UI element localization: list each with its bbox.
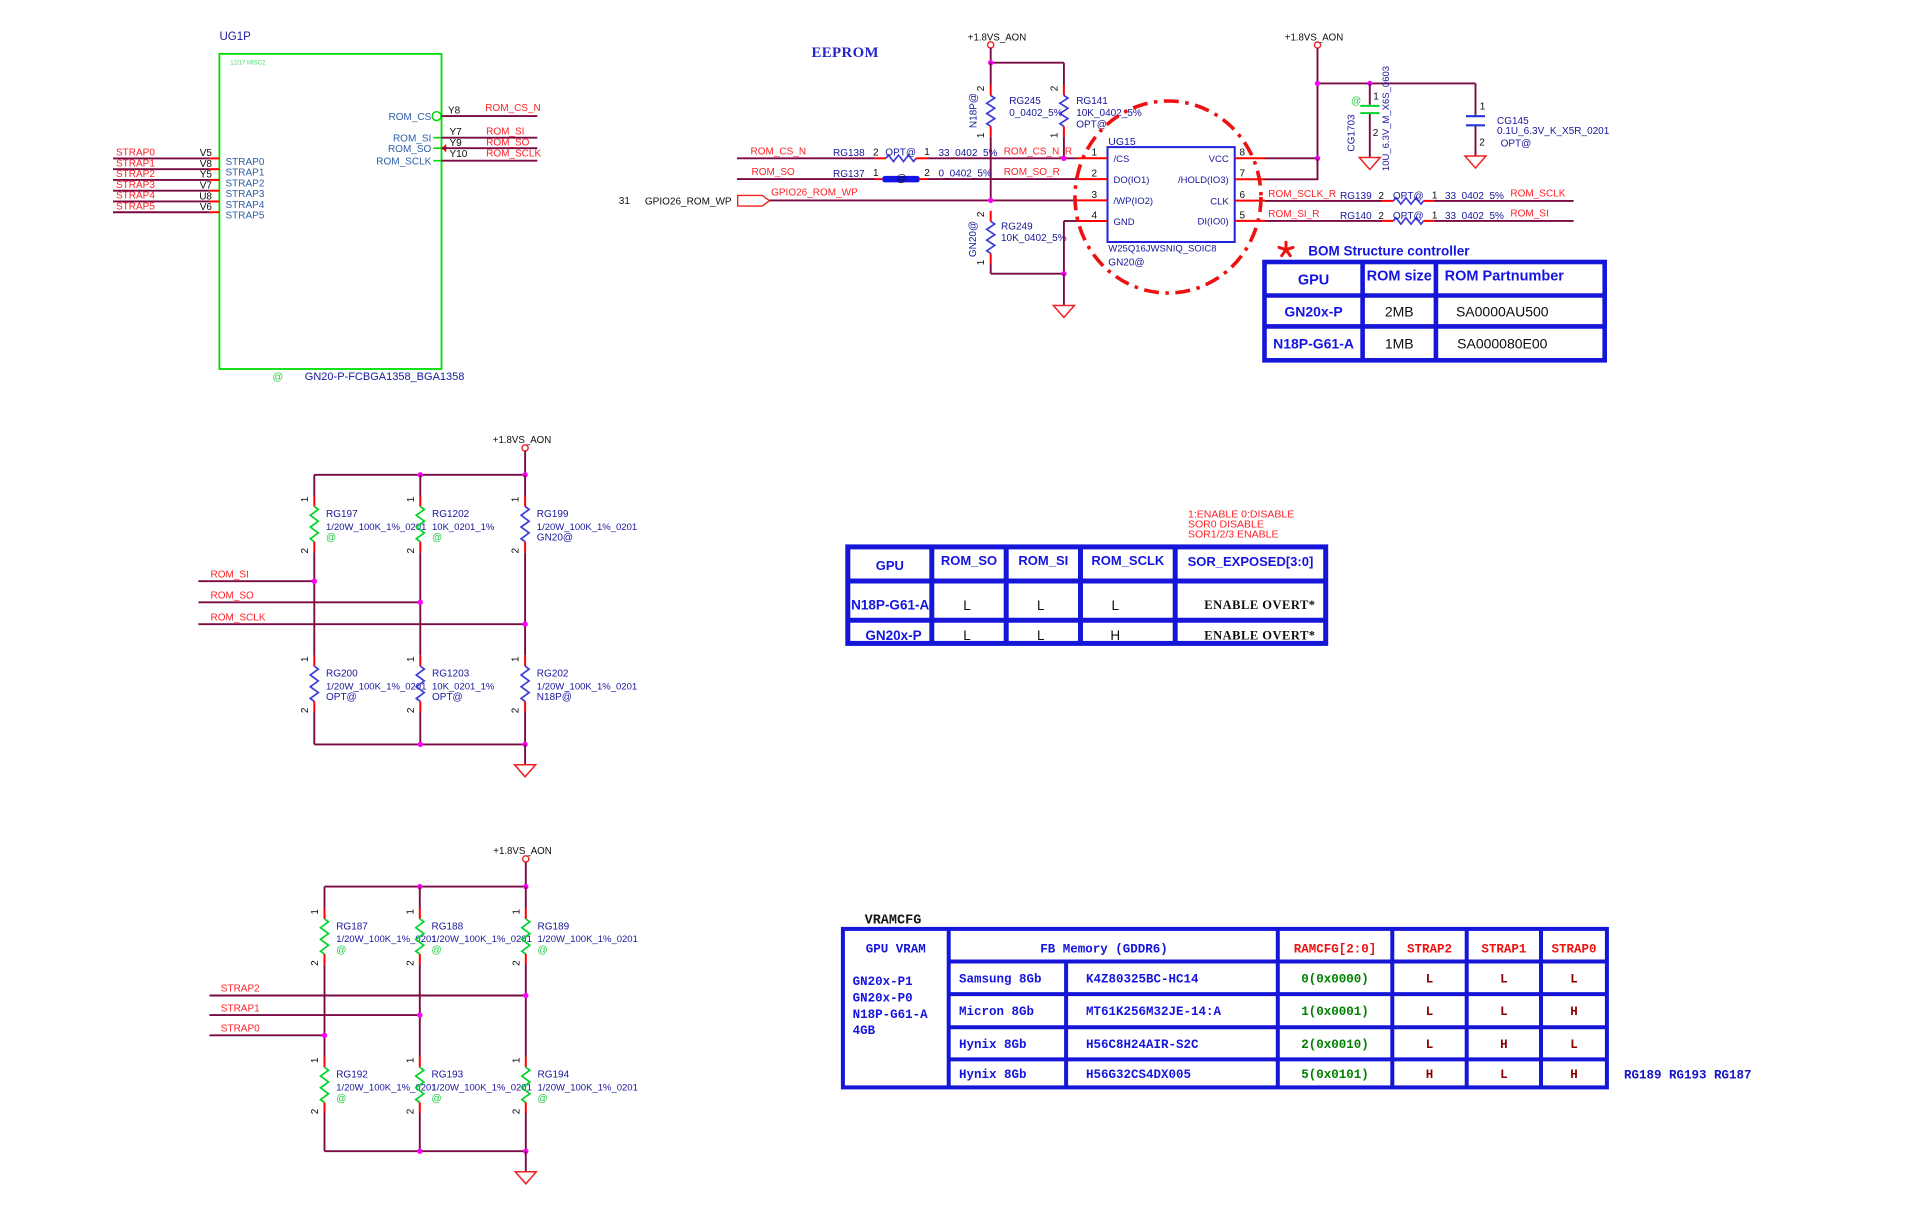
svg-text:ROM_SI: ROM_SI xyxy=(393,133,431,144)
svg-text:DI(IO0): DI(IO0) xyxy=(1198,217,1229,228)
svg-text:10K_0201_1%: 10K_0201_1% xyxy=(432,681,495,692)
wire net ROM_SO_R xyxy=(927,178,1077,180)
table VRAMCFG xyxy=(843,929,1607,1088)
node junction bottom/RG202 xyxy=(522,742,527,747)
svg-text:4GB: 4GB xyxy=(853,1024,876,1038)
svg-text:RG138: RG138 xyxy=(833,148,865,159)
svg-text:GN20@: GN20@ xyxy=(537,533,573,544)
svg-text:1/20W_100K_1%_0201: 1/20W_100K_1%_0201 xyxy=(538,934,638,945)
svg-text:@: @ xyxy=(896,173,907,185)
svg-text:1: 1 xyxy=(310,909,321,915)
svg-text:RG1202: RG1202 xyxy=(432,509,470,520)
resistor RG200 1/20W_100K_1%_0201 xyxy=(313,581,315,656)
svg-text:L: L xyxy=(963,628,971,643)
svg-text:1: 1 xyxy=(406,656,417,662)
wire net ROM_SO (EEPROM side) xyxy=(737,178,875,180)
svg-text:MT61K256M32JE-14:A: MT61K256M32JE-14:A xyxy=(1086,1005,1222,1019)
svg-text:ROM_SCLK: ROM_SCLK xyxy=(486,148,541,159)
svg-text:Y7: Y7 xyxy=(450,127,463,138)
svg-text:2: 2 xyxy=(924,168,930,179)
svg-text:2: 2 xyxy=(511,960,522,966)
table SOR_EXPOSED xyxy=(848,547,1326,644)
svg-text:W25Q16JWSNIQ_SOIC8: W25Q16JWSNIQ_SOIC8 xyxy=(1108,243,1216,254)
svg-text:1: 1 xyxy=(976,132,987,138)
svg-text:@: @ xyxy=(432,945,442,956)
node junction bottom/RG1203 xyxy=(418,742,423,747)
capacitor CG1703 10U_6.3V_M_X6S_0603 xyxy=(1369,83,1371,104)
svg-text:STRAP5: STRAP5 xyxy=(226,211,265,222)
capacitor CG145 0.1U_6.3V_K_X5R_0201 OPT xyxy=(1475,83,1477,115)
svg-text:10K_0201_1%: 10K_0201_1% xyxy=(432,522,495,533)
wire net ROM_SI out xyxy=(1434,220,1574,222)
wire net ROM_SCLK out xyxy=(1434,200,1574,202)
svg-text:2: 2 xyxy=(310,960,321,966)
svg-text:Y10: Y10 xyxy=(450,149,468,160)
svg-text:1: 1 xyxy=(1480,102,1486,113)
node junction STRAP2/RG189 xyxy=(523,993,528,998)
svg-text:L: L xyxy=(1500,1005,1508,1019)
svg-text:GND: GND xyxy=(1114,217,1135,228)
svg-text:N18P-G61-A: N18P-G61-A xyxy=(851,598,929,613)
IC UG15 W25Q16JWSNIQ body xyxy=(1108,147,1235,242)
svg-text:SOR1/2/3 ENABLE: SOR1/2/3 ENABLE xyxy=(1188,529,1278,541)
wire ground stub (bottom network) xyxy=(525,1151,527,1172)
node junction rail/RG199 xyxy=(522,472,527,477)
svg-text:1/20W_100K_1%_0201: 1/20W_100K_1%_0201 xyxy=(326,681,426,692)
node junction bottom/RG193 xyxy=(417,1149,422,1154)
svg-text:SOR_EXPOSED[3:0]: SOR_EXPOSED[3:0] xyxy=(1188,554,1314,569)
wire net STRAP3 into UG1P xyxy=(113,190,210,192)
svg-text:N18P@: N18P@ xyxy=(537,692,572,703)
wire net ROM_SCLK from UG1P xyxy=(442,160,538,162)
svg-text:2: 2 xyxy=(406,707,417,713)
wire ground stub xyxy=(1063,274,1065,306)
BOM note asterisk xyxy=(1279,242,1293,255)
node junction rail/RG188 xyxy=(417,884,422,889)
resistor RG139 33_0402_5% OPT xyxy=(1382,200,1393,202)
svg-text:+1.8VS_AON: +1.8VS_AON xyxy=(1285,33,1343,44)
svg-text:OPT@: OPT@ xyxy=(1393,211,1424,222)
svg-text:GN20-P-FCBGA1358_BGA1358: GN20-P-FCBGA1358_BGA1358 xyxy=(305,371,465,383)
svg-text:8: 8 xyxy=(1240,148,1246,159)
svg-text:@: @ xyxy=(336,945,346,956)
svg-text:L: L xyxy=(1037,628,1045,643)
svg-text:1: 1 xyxy=(511,909,522,915)
svg-text:L: L xyxy=(1570,972,1578,986)
svg-text:2: 2 xyxy=(300,707,311,713)
svg-text:1: 1 xyxy=(976,259,987,265)
svg-text:EEPROM: EEPROM xyxy=(812,45,879,61)
pin Y5 stub STRAP2 xyxy=(210,179,220,181)
svg-text:V7: V7 xyxy=(200,181,213,192)
wire net STRAP0 (pull junction) xyxy=(209,1034,324,1036)
svg-text:RG199: RG199 xyxy=(537,509,569,520)
svg-text:@: @ xyxy=(538,945,548,956)
svg-text:6: 6 xyxy=(1240,190,1246,201)
node junction ROM_SI/RG197 xyxy=(312,579,317,584)
svg-text:STRAP3: STRAP3 xyxy=(226,189,265,200)
svg-text:ROM Partnumber: ROM Partnumber xyxy=(1445,269,1565,285)
wire net ROM_SO from UG1P xyxy=(442,147,538,149)
svg-text:STRAP1: STRAP1 xyxy=(221,1003,260,1014)
pin Y7 ROM_SI xyxy=(433,137,441,139)
svg-text:4: 4 xyxy=(1091,210,1097,221)
svg-text:ROM_SI: ROM_SI xyxy=(486,126,524,137)
svg-text:N18P@: N18P@ xyxy=(969,93,980,128)
svg-text:RG140: RG140 xyxy=(1340,211,1372,222)
svg-text:N18P-G61-A: N18P-G61-A xyxy=(1273,336,1354,352)
wire power stub xyxy=(990,48,992,63)
svg-text:1: 1 xyxy=(1091,148,1097,159)
svg-text:2: 2 xyxy=(511,707,522,713)
svg-text:2: 2 xyxy=(405,1108,416,1114)
svg-text:1/20W_100K_1%_0201: 1/20W_100K_1%_0201 xyxy=(537,681,637,692)
node junction VCC pin8 xyxy=(1315,156,1320,161)
svg-text:1: 1 xyxy=(300,496,311,502)
svg-text:RG187: RG187 xyxy=(336,921,368,932)
svg-text:@: @ xyxy=(432,533,442,544)
node junction bottom/RG194 xyxy=(523,1149,528,1154)
node junction GPIO26/RG245/RG249 xyxy=(988,198,993,203)
svg-text:OPT@: OPT@ xyxy=(432,692,463,703)
highlight circle (BOM note) around UG15 xyxy=(1075,101,1261,293)
svg-text:@: @ xyxy=(326,533,336,544)
wire net GPIO26_ROM_WP to /WP pin xyxy=(770,199,1078,201)
ground symbol (EEPROM) xyxy=(1053,306,1074,318)
svg-text:1: 1 xyxy=(405,909,416,915)
svg-text:RG141: RG141 xyxy=(1076,96,1108,107)
svg-text:10U_6.3V_M_X6S_0603: 10U_6.3V_M_X6S_0603 xyxy=(1381,66,1392,171)
svg-text:L: L xyxy=(1426,972,1434,986)
svg-text:+1.8VS_AON: +1.8VS_AON xyxy=(493,846,551,857)
svg-text:H: H xyxy=(1570,1068,1578,1082)
wire net STRAP4 into UG1P xyxy=(113,200,210,202)
svg-text:UG1P: UG1P xyxy=(220,31,252,43)
svg-text:1: 1 xyxy=(405,1057,416,1063)
svg-text:ROM_SO: ROM_SO xyxy=(388,144,432,155)
svg-text:STRAP1: STRAP1 xyxy=(116,158,155,169)
svg-text:OPT@: OPT@ xyxy=(1501,138,1532,149)
svg-text:2: 2 xyxy=(511,1108,522,1114)
pin Y8 ROM_CS with bubble xyxy=(432,112,441,121)
wire net ROM_SI (pull junction) xyxy=(198,580,314,582)
svg-text:RG202: RG202 xyxy=(537,669,569,680)
svg-text:ROM_SCLK: ROM_SCLK xyxy=(211,612,266,623)
pin 7 /HOLD(IO3) stub xyxy=(1235,178,1265,180)
svg-text:N18P-G61-A: N18P-G61-A xyxy=(853,1008,929,1022)
svg-text:2: 2 xyxy=(300,547,311,553)
GPU chip UG1P body xyxy=(219,54,441,369)
svg-text:0.1U_6.3V_K_X5R_0201: 0.1U_6.3V_K_X5R_0201 xyxy=(1497,126,1610,137)
svg-text:GN20x-P: GN20x-P xyxy=(1284,304,1342,320)
pin 1 /CS stub xyxy=(1077,157,1107,159)
svg-text:Hynix 8Gb: Hynix 8Gb xyxy=(959,1038,1027,1052)
svg-text:STRAP1: STRAP1 xyxy=(226,168,265,179)
wire top rail (middle network) xyxy=(314,474,525,476)
svg-text:@: @ xyxy=(336,1093,346,1104)
svg-text:2: 2 xyxy=(1373,128,1379,139)
svg-text:SA000080E00: SA000080E00 xyxy=(1457,336,1548,352)
svg-text:DO(IO1): DO(IO1) xyxy=(1114,175,1150,186)
svg-text:0_0402_5%: 0_0402_5% xyxy=(1009,108,1062,119)
svg-text:V5: V5 xyxy=(200,148,213,159)
svg-text:ROM_SCLK: ROM_SCLK xyxy=(1510,188,1565,199)
wire VCC vertical rail xyxy=(1317,48,1319,158)
svg-text:1: 1 xyxy=(511,1057,522,1063)
svg-text:L: L xyxy=(1500,972,1508,986)
node junction rail/vertical xyxy=(1315,81,1320,86)
svg-text:+1.8VS_AON: +1.8VS_AON xyxy=(493,435,551,446)
wire net ROM_CS_N from UG1P xyxy=(442,115,538,117)
svg-text:@: @ xyxy=(432,1093,442,1104)
svg-text:STRAP0: STRAP0 xyxy=(1551,943,1596,957)
wire pin8 VCC to rail xyxy=(1265,157,1318,159)
wire net STRAP0 into UG1P xyxy=(113,157,210,159)
svg-text:1/20W_100K_1%_0201: 1/20W_100K_1%_0201 xyxy=(432,934,532,945)
node junction rail/RG1202 xyxy=(418,472,423,477)
svg-text:Hynix 8Gb: Hynix 8Gb xyxy=(959,1068,1027,1082)
svg-text:H: H xyxy=(1570,1005,1578,1019)
wire net STRAP2 into UG1P xyxy=(113,179,210,181)
svg-text:ROM_SI: ROM_SI xyxy=(1510,208,1548,219)
svg-text:U8: U8 xyxy=(199,191,212,202)
svg-text:RG137: RG137 xyxy=(833,169,865,180)
svg-text:1: 1 xyxy=(406,496,417,502)
svg-text:3: 3 xyxy=(1091,190,1097,201)
pin U8 stub STRAP4 xyxy=(210,200,220,202)
svg-text:H: H xyxy=(1110,628,1120,643)
pin V5 stub STRAP0 xyxy=(210,157,220,159)
svg-text:/HOLD(IO3): /HOLD(IO3) xyxy=(1178,175,1229,186)
node junction CG1703 xyxy=(1367,81,1372,86)
resistor RG187 1/20W_100K_1%_0201 xyxy=(324,887,326,909)
svg-text:RAMCFG[2:0]: RAMCFG[2:0] xyxy=(1294,943,1377,957)
svg-text:GPU: GPU xyxy=(1298,273,1329,289)
svg-text:VCC: VCC xyxy=(1209,154,1229,165)
ground symbol (middle network) xyxy=(515,765,536,777)
svg-text:L: L xyxy=(1500,1068,1508,1082)
svg-text:/CS: /CS xyxy=(1114,154,1130,165)
svg-text:ENABLE OVERT*: ENABLE OVERT* xyxy=(1204,628,1315,642)
svg-text:0_0402_5%: 0_0402_5% xyxy=(939,169,992,180)
svg-text:GPU VRAM: GPU VRAM xyxy=(866,943,926,957)
svg-text:@: @ xyxy=(1351,96,1361,107)
svg-text:12/17 MISC2: 12/17 MISC2 xyxy=(230,61,266,67)
svg-text:V8: V8 xyxy=(200,159,213,170)
wire top rail (bottom network) xyxy=(325,886,526,888)
svg-text:L: L xyxy=(1570,1038,1578,1052)
svg-text:STRAP2: STRAP2 xyxy=(221,984,260,995)
svg-text:ROM_SO: ROM_SO xyxy=(941,553,997,568)
svg-text:1: 1 xyxy=(924,147,930,158)
pin 3 /WP(IO2) stub xyxy=(1077,199,1107,201)
svg-text:ROM_SCLK: ROM_SCLK xyxy=(376,156,431,167)
svg-text:STRAP2: STRAP2 xyxy=(1407,943,1452,957)
svg-text:OPT@: OPT@ xyxy=(885,148,916,159)
svg-text:2: 2 xyxy=(405,960,416,966)
resistor RG140 33_0402_5% OPT xyxy=(1382,220,1393,222)
svg-text:1: 1 xyxy=(511,496,522,502)
svg-text:OPT@: OPT@ xyxy=(1076,119,1107,130)
svg-text:1/20W_100K_1%_0201: 1/20W_100K_1%_0201 xyxy=(537,522,637,533)
wire pin7 HOLD to rail xyxy=(1265,178,1318,180)
svg-text:BOM Structure controller: BOM Structure controller xyxy=(1308,243,1470,258)
svg-text:RG189 RG193 RG187: RG189 RG193 RG187 xyxy=(1624,1069,1752,1083)
ground symbol CG1703 xyxy=(1359,158,1380,170)
svg-text:ROM_CS_N: ROM_CS_N xyxy=(485,103,541,114)
svg-text:H: H xyxy=(1426,1068,1434,1082)
pin 8 VCC stub xyxy=(1235,157,1265,159)
svg-text:2: 2 xyxy=(873,148,879,159)
svg-text:1: 1 xyxy=(1049,132,1060,138)
svg-text:H56G32CS4DX005: H56G32CS4DX005 xyxy=(1086,1068,1191,1082)
svg-text:H56C8H24AIR-S2C: H56C8H24AIR-S2C xyxy=(1086,1038,1199,1052)
resistor RG194 1/20W_100K_1%_0201 xyxy=(525,996,527,1057)
svg-text:VRAMCFG: VRAMCFG xyxy=(865,913,922,928)
svg-text:RG139: RG139 xyxy=(1340,191,1372,202)
svg-text:2: 2 xyxy=(406,547,417,553)
svg-text:1: 1 xyxy=(1373,92,1379,103)
svg-text:STRAP1: STRAP1 xyxy=(1481,943,1526,957)
node junction GND net xyxy=(1061,271,1066,276)
pin 4 GND stub xyxy=(1077,220,1107,222)
wire net ROM_SCLK_R xyxy=(1265,200,1382,202)
svg-text:Y8: Y8 xyxy=(448,105,461,116)
svg-text:STRAP0: STRAP0 xyxy=(226,157,265,168)
svg-text:STRAP5: STRAP5 xyxy=(116,201,155,212)
node junction ROM_SCLK/RG199 xyxy=(522,622,527,627)
svg-text:2: 2 xyxy=(1378,191,1384,202)
resistor RG189 1/20W_100K_1%_0201 xyxy=(525,887,527,909)
svg-text:2: 2 xyxy=(1378,211,1384,222)
svg-text:V6: V6 xyxy=(200,202,213,213)
svg-text:RG1203: RG1203 xyxy=(432,669,470,680)
wire net STRAP1 (pull junction) xyxy=(209,1014,419,1016)
pin 6 CLK stub xyxy=(1235,200,1265,202)
resistor RG202 1/20W_100K_1%_0201 xyxy=(524,624,526,656)
svg-text:7: 7 xyxy=(1240,169,1246,180)
resistor RG199 1/20W_100K_1%_0201 xyxy=(524,475,526,496)
svg-text:CG1703: CG1703 xyxy=(1347,114,1358,152)
svg-text:FB Memory (GDDR6): FB Memory (GDDR6) xyxy=(1040,943,1168,957)
svg-text:L: L xyxy=(1426,1038,1434,1052)
svg-text:@: @ xyxy=(538,1093,548,1104)
svg-text:ROM_CS: ROM_CS xyxy=(389,112,432,123)
pin V7 stub STRAP3 xyxy=(210,190,220,192)
svg-text:GPIO26_ROM_WP: GPIO26_ROM_WP xyxy=(771,188,858,199)
wire net ROM_CS_N (EEPROM side) xyxy=(737,157,875,159)
svg-text:2: 2 xyxy=(976,85,987,91)
svg-text:RG193: RG193 xyxy=(432,1070,464,1081)
ground symbol (bottom network) xyxy=(515,1172,536,1184)
resistor RG138 33_0402_5% OPT xyxy=(875,157,886,159)
svg-text:GN20x-P: GN20x-P xyxy=(865,628,921,643)
resistor RG249 10K_0402_5% xyxy=(990,211,992,222)
svg-text:1: 1 xyxy=(300,656,311,662)
svg-text:ROM size: ROM size xyxy=(1367,269,1432,285)
svg-text:0(0x0000): 0(0x0000) xyxy=(1301,972,1369,986)
node junction STRAP1/RG188 xyxy=(417,1012,422,1017)
wire bottom rail (bottom network) xyxy=(325,1150,526,1152)
svg-text:ROM_SI: ROM_SI xyxy=(1018,553,1068,568)
wire net ROM_SCLK (pull junction) xyxy=(198,623,525,625)
svg-text:1/20W_100K_1%_0201: 1/20W_100K_1%_0201 xyxy=(538,1083,638,1094)
pin V8 stub STRAP1 xyxy=(210,168,220,170)
svg-text:1: 1 xyxy=(1432,191,1438,202)
node junction RG141/ROM_CS_N_R xyxy=(1061,156,1066,161)
wire net ROM_SI_R xyxy=(1265,220,1382,222)
svg-text:K4Z80325BC-HC14: K4Z80325BC-HC14 xyxy=(1086,972,1199,986)
svg-text:GN20x-P1: GN20x-P1 xyxy=(853,975,913,989)
svg-text:1/20W_100K_1%_0201: 1/20W_100K_1%_0201 xyxy=(326,522,426,533)
wire top rail RG245-RG141 xyxy=(991,62,1064,64)
resistor RG137 0_0402_5% (fitted 0-ohm, solid body) xyxy=(875,178,882,180)
svg-text:33_0402_5%: 33_0402_5% xyxy=(939,148,998,159)
svg-text:ROM_SO: ROM_SO xyxy=(211,591,255,602)
svg-text:31: 31 xyxy=(619,196,631,207)
wire net ROM_SI from UG1P xyxy=(442,137,538,139)
wire bottom rail (middle network) xyxy=(314,743,525,745)
svg-text:2: 2 xyxy=(1049,85,1060,91)
svg-text:2: 2 xyxy=(1479,138,1485,149)
svg-text:Samsung 8Gb: Samsung 8Gb xyxy=(959,972,1042,986)
svg-text:ROM_SI: ROM_SI xyxy=(211,569,249,580)
svg-text:L: L xyxy=(963,598,971,613)
svg-text:Y5: Y5 xyxy=(200,170,213,181)
resistor RG193 1/20W_100K_1%_0201 xyxy=(419,1015,421,1057)
svg-text:ROM_CS_N_R: ROM_CS_N_R xyxy=(1004,146,1072,157)
svg-text:OPT@: OPT@ xyxy=(1393,191,1424,202)
resistor RG141 10K_0402_5% OPT xyxy=(1063,63,1065,85)
pin 2 DO(IO1) stub xyxy=(1077,178,1107,180)
svg-text:+1.8VS_AON: +1.8VS_AON xyxy=(968,33,1026,44)
wire ground stub (middle network) xyxy=(524,744,526,764)
svg-text:1: 1 xyxy=(1432,211,1438,222)
node junction rail/RG189 xyxy=(523,884,528,889)
wire RG249 to ground corner xyxy=(991,273,1064,275)
svg-text:Micron 8Gb: Micron 8Gb xyxy=(959,1005,1034,1019)
svg-text:CLK: CLK xyxy=(1210,196,1229,207)
svg-text:GPU: GPU xyxy=(876,558,904,573)
node junction ROM_SO/RG1202 xyxy=(418,600,423,605)
svg-text:RG194: RG194 xyxy=(538,1070,570,1081)
svg-text:1(0x0001): 1(0x0001) xyxy=(1301,1005,1369,1019)
svg-text:RG188: RG188 xyxy=(432,921,464,932)
wire net STRAP1 into UG1P xyxy=(113,168,210,170)
svg-text:2: 2 xyxy=(976,211,987,217)
table BOM structure xyxy=(1265,262,1605,360)
svg-text:1: 1 xyxy=(511,656,522,662)
svg-text:5: 5 xyxy=(1240,210,1246,221)
resistor RG192 1/20W_100K_1%_0201 xyxy=(324,1035,326,1057)
svg-text:L: L xyxy=(1111,598,1119,613)
svg-text:ROM_SI_R: ROM_SI_R xyxy=(1268,209,1319,220)
svg-text:ROM_SO_R: ROM_SO_R xyxy=(1004,167,1060,178)
wire net STRAP2 (pull junction) xyxy=(209,995,525,997)
svg-text:GN20@: GN20@ xyxy=(968,221,979,257)
svg-text:1: 1 xyxy=(310,1057,321,1063)
svg-text:STRAP3: STRAP3 xyxy=(116,180,155,191)
svg-text:ROM_SCLK: ROM_SCLK xyxy=(1091,553,1165,568)
svg-text:L: L xyxy=(1037,598,1045,613)
resistor RG245 0_0402_5% xyxy=(990,63,992,85)
pin V6 stub STRAP5 xyxy=(210,211,220,213)
wire net STRAP5 into UG1P xyxy=(113,211,210,213)
svg-text:L: L xyxy=(1426,1005,1434,1019)
svg-text:GPIO26_ROM_WP: GPIO26_ROM_WP xyxy=(645,196,732,207)
svg-text:@: @ xyxy=(273,371,284,383)
svg-text:RG249: RG249 xyxy=(1001,222,1033,233)
